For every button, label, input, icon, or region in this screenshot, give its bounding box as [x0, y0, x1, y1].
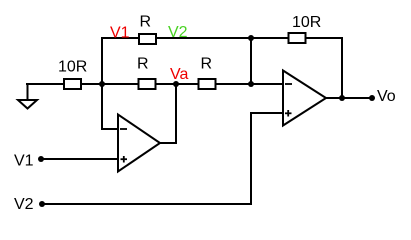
svg-text:Va: Va	[170, 66, 188, 83]
svg-text:V1: V1	[14, 153, 34, 170]
svg-text:R: R	[201, 56, 213, 73]
svg-text:R: R	[137, 56, 149, 73]
svg-text:V1: V1	[110, 25, 130, 42]
svg-text:10R: 10R	[58, 59, 87, 76]
svg-text:V2: V2	[168, 24, 188, 41]
svg-text:V2: V2	[14, 196, 34, 213]
svg-text:10R: 10R	[292, 14, 321, 31]
svg-text:R: R	[140, 14, 152, 31]
svg-text:Vo: Vo	[377, 88, 396, 105]
